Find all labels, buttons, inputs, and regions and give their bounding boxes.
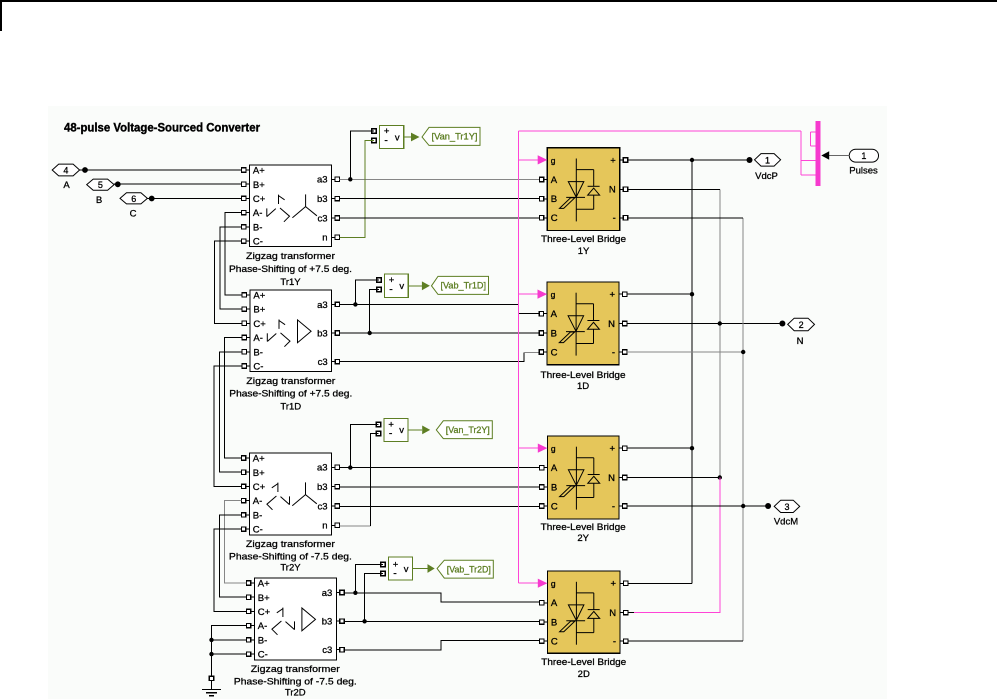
Tr2D port A- [247, 625, 255, 627]
svg-text:C: C [551, 347, 558, 358]
svg-text:B+: B+ [253, 180, 265, 191]
zigzag transformer Tr2D block [254, 578, 336, 660]
svg-text:-: - [389, 428, 393, 440]
svg-text:[Vab_Tr1D]: [Vab_Tr1D] [441, 281, 487, 291]
voltage measurement M2 [385, 274, 409, 298]
M3 output arrowhead [422, 426, 430, 435]
junction dot C [149, 196, 155, 202]
tap dot Vab_Tr1D - [368, 331, 372, 335]
tap dot Van_Tr2Y + [348, 465, 352, 469]
wire Tr2D A- to ground [212, 626, 247, 677]
Tr2Y wye secondary icon [305, 482, 307, 494]
svg-text:g: g [551, 444, 556, 454]
svg-text:A-: A- [258, 621, 268, 632]
Tr1Y port A+ [242, 169, 250, 171]
Tr2D port C+ [247, 610, 255, 612]
wire Tr1D B- to Tr2Y B+ [219, 352, 242, 472]
M2 output arrowhead [422, 281, 430, 290]
zigzag transformer Tr1Y block [249, 165, 331, 246]
svg-text:a3: a3 [317, 463, 328, 474]
svg-text:VdcM: VdcM [774, 517, 798, 528]
svg-text:g: g [551, 290, 556, 300]
svg-text:+: + [609, 444, 615, 455]
svg-text:A: A [551, 309, 558, 320]
Tr1D delta secondary icon [298, 320, 312, 343]
svg-text:3: 3 [784, 502, 789, 512]
Tr1D port c3 [332, 361, 340, 363]
svg-text:B+: B+ [253, 468, 265, 479]
M1 input ports [372, 129, 377, 134]
svg-text:B-: B- [253, 347, 263, 358]
wire B to Tr1Y B+ [114, 183, 243, 185]
wire C to Tr1Y C+ [147, 197, 243, 199]
junction dot plus 2Y [690, 446, 694, 450]
svg-text:-: - [613, 213, 616, 224]
wire Tr1Y b3 to bridge 1Y B [339, 198, 539, 200]
svg-text:A: A [551, 598, 558, 609]
wire bridge 2Y N to N bus [627, 477, 720, 479]
Tr2Y port n [332, 524, 340, 526]
svg-text:Three-Level Bridge: Three-Level Bridge [541, 522, 626, 533]
arrowhead into demux [821, 151, 829, 159]
M4 input ports [381, 562, 386, 567]
outport 2 N [779, 321, 785, 327]
svg-text:48-pulse Voltage-Sourced Conve: 48-pulse Voltage-Sourced Converter [64, 121, 260, 135]
svg-text:g: g [551, 579, 556, 589]
svg-text:b3: b3 [317, 328, 328, 339]
wire Tr2Y b3 to bridge 2Y B [339, 486, 539, 488]
svg-text:A+: A+ [258, 579, 270, 590]
voltage measurement M3 [384, 419, 408, 442]
Tr1Y port A- [242, 212, 250, 214]
Tr2D port B+ [247, 596, 255, 598]
wire bridge 1Y - to minus bus [628, 217, 744, 219]
wire Tr1D b3 to bridge 1D B [340, 332, 540, 334]
model canvas background [48, 106, 887, 699]
wire Tr1Y a3 to bridge 1Y A [339, 178, 539, 180]
Tr1Y port c3 [332, 217, 340, 219]
Tr1D zigzag winding icon [278, 320, 280, 329]
Tr1D port A+ [242, 294, 250, 296]
Tr2D port b3 [336, 620, 344, 622]
svg-text:C-: C- [253, 362, 263, 373]
inport 5 (phase B) [87, 179, 114, 190]
svg-text:C: C [551, 637, 558, 648]
svg-text:B-: B- [258, 636, 268, 647]
svg-text:A+: A+ [253, 454, 265, 465]
Tr2Y port C- [242, 528, 250, 530]
tap dot Vab_Tr2D + [353, 591, 357, 595]
junction dot N bus 1D [718, 321, 722, 325]
Tr1D port a3 [332, 303, 340, 305]
Tr1D port B- [242, 351, 250, 353]
inport 6 (phase C) [120, 193, 147, 204]
svg-text:B-: B- [253, 223, 263, 234]
svg-text:n: n [322, 521, 327, 532]
svg-text:Phase-Shifting of +7.5 deg.: Phase-Shifting of +7.5 deg. [229, 264, 352, 275]
demux output wires [800, 131, 802, 175]
gate bus top horizontal [519, 130, 801, 132]
wire Tr2D C- to ground node [212, 653, 247, 655]
wire tap a3 to M3 + [350, 424, 378, 467]
svg-text:[Van_Tr2Y]: [Van_Tr2Y] [446, 425, 490, 435]
Tr1Y port B+ [242, 183, 250, 185]
wire tap a3 to M2 + [355, 280, 379, 305]
gate wire to bridge 1D g [519, 293, 538, 295]
junction dot A [82, 167, 88, 173]
svg-text:v: v [404, 564, 409, 575]
wire Tr2D a3 to bridge 2D A [344, 593, 539, 602]
svg-text:A: A [551, 175, 558, 186]
Tr1D port b3 [332, 332, 340, 334]
three-level bridge 1Y block [547, 148, 620, 231]
svg-text:N: N [608, 473, 615, 484]
svg-text:c3: c3 [318, 501, 328, 512]
svg-text:1: 1 [765, 155, 770, 165]
wire Tr1D a3 to bridge 1D A [340, 304, 540, 313]
svg-text:A: A [63, 180, 70, 191]
svg-text:-: - [389, 284, 393, 296]
svg-text:N: N [797, 336, 804, 347]
svg-text:Tr2D: Tr2D [285, 688, 306, 699]
minus bus vertical [742, 218, 744, 641]
tap dot Vab_Tr2D - [362, 619, 366, 623]
svg-text:B: B [551, 618, 557, 629]
svg-text:A-: A- [253, 208, 263, 219]
svg-text:-: - [612, 347, 615, 358]
svg-text:5: 5 [98, 180, 103, 190]
tap dot Vab_Tr1D + [353, 302, 357, 306]
wire bridge 2Y - to VdcM [627, 505, 768, 507]
svg-text:A+: A+ [253, 166, 265, 177]
svg-text:C+: C+ [253, 319, 266, 330]
Tr2Y port B+ [242, 471, 250, 473]
goto tag [Van_Tr1Y] [422, 127, 480, 145]
Tr2Y port C+ [242, 485, 250, 487]
wire Tr1Y C- to Tr1D C+ [215, 241, 243, 323]
Tr2Y port A- [242, 500, 250, 502]
svg-text:C-: C- [253, 525, 263, 536]
wire bridge 1Y N to N bus [628, 188, 720, 190]
svg-text:Tr2Y: Tr2Y [280, 563, 301, 574]
ground [209, 676, 213, 680]
wire Tr1Y A- to Tr1D A+ [225, 213, 242, 295]
demux bar [816, 121, 821, 186]
wire tap b3 to M4 - [365, 574, 383, 622]
svg-text:Pulses: Pulses [849, 166, 878, 177]
Tr1Y port b3 [332, 198, 340, 200]
wire Tr2Y C- to Tr2D C+ [214, 529, 246, 611]
junction dot B [115, 181, 121, 187]
window frame corner [0, 0, 997, 2]
svg-text:Three-Level Bridge: Three-Level Bridge [541, 370, 626, 381]
svg-text:v: v [399, 425, 404, 436]
outport 3 VdcM [765, 503, 771, 509]
wire Tr2D b3 to bridge 2D B [344, 620, 539, 622]
svg-text:A-: A- [253, 333, 263, 344]
svg-text:-: - [393, 568, 397, 580]
svg-text:B: B [96, 195, 102, 206]
wire Tr2D c3 to bridge 2D C [344, 640, 539, 650]
wire bridge 2D + to plus bus [628, 582, 692, 584]
svg-text:1D: 1D [577, 381, 589, 392]
svg-text:Tr1D: Tr1D [280, 401, 301, 412]
svg-text:Zigzag transformer: Zigzag transformer [246, 251, 335, 262]
svg-text:+: + [610, 155, 616, 166]
svg-text:A+: A+ [253, 291, 265, 302]
Tr2D port a3 [336, 592, 344, 594]
wire Tr1Y n to M1 - (green) [339, 141, 374, 238]
svg-text:C-: C- [258, 650, 268, 661]
Tr2Y port c3 [332, 505, 340, 507]
2D icon [575, 582, 577, 645]
wire tap b3 to M2 - [370, 290, 379, 334]
wire bridge 2Y + to plus bus [627, 447, 692, 449]
Tr2D port C- [247, 653, 255, 655]
svg-text:2Y: 2Y [577, 533, 589, 544]
wire Tr1Y c3 to bridge 1Y C [339, 217, 539, 219]
svg-text:Zigzag transformer: Zigzag transformer [246, 376, 335, 387]
N bus vertical [719, 189, 721, 477]
Tr2D delta secondary icon [302, 608, 316, 631]
svg-text:b3: b3 [317, 482, 328, 493]
M3 output wire [408, 429, 422, 431]
Tr2D port c3 [336, 649, 344, 651]
svg-text:C: C [551, 501, 558, 512]
Tr1Y zigzag winding icon [278, 195, 280, 204]
junction dot plus 1Y [690, 158, 694, 162]
M1 output arrowhead [411, 133, 420, 142]
Tr1Y port a3 [332, 178, 340, 180]
junction dot minus 2Y [741, 504, 745, 508]
Tr1Y port n [332, 236, 340, 238]
M1 output wire [404, 136, 411, 138]
wire Tr2Y c3 to bridge 2Y C [339, 505, 539, 507]
Tr2D zigzag winding icon [282, 608, 284, 617]
svg-text:B+: B+ [253, 305, 265, 316]
three-level bridge 2Y block [547, 436, 619, 519]
Tr1Y port C- [242, 240, 250, 242]
svg-text:N: N [609, 185, 616, 196]
svg-text:N: N [609, 608, 616, 619]
svg-text:C: C [130, 209, 137, 220]
svg-text:6: 6 [131, 194, 136, 204]
Tr2Y port A+ [242, 457, 250, 459]
wire bridge 1D N to outport 2 [627, 323, 783, 325]
svg-text:2D: 2D [578, 669, 590, 680]
inport 1 Pulses [849, 149, 878, 162]
svg-text:N: N [608, 319, 615, 330]
wire Tr1Y B- to Tr1D B+ [220, 227, 242, 309]
svg-text:v: v [395, 132, 400, 143]
junction dot plus 1D [690, 292, 694, 296]
wire tap a3 to M1 + [350, 131, 374, 179]
svg-text:2: 2 [799, 320, 804, 330]
wire Tr2Y a3 to bridge 2Y A [339, 467, 539, 469]
Tr1D port A- [242, 337, 250, 339]
2Y icon [575, 447, 577, 510]
svg-text:A: A [551, 463, 558, 474]
Tr1Y port C+ [242, 197, 250, 199]
svg-text:C+: C+ [253, 482, 266, 493]
svg-text:B: B [551, 482, 557, 493]
svg-text:B+: B+ [258, 593, 270, 604]
svg-text:Zigzag transformer: Zigzag transformer [251, 664, 340, 675]
wire Tr1D c3 to bridge 1D C [340, 352, 524, 361]
Tr1Y wye secondary icon [305, 194, 307, 206]
svg-text:-: - [613, 637, 616, 648]
svg-text:[Van_Tr1Y]: [Van_Tr1Y] [432, 132, 478, 142]
junction dot minus 1D [741, 350, 745, 354]
wire bridge 1Y + to VdcP [628, 159, 750, 161]
wire Tr2D B- to ground node [212, 639, 247, 641]
svg-text:Tr1Y: Tr1Y [280, 277, 301, 288]
svg-text:a3: a3 [317, 300, 328, 311]
voltage measurement M1 [380, 125, 404, 148]
junction dot B- ground [209, 638, 213, 642]
Tr2Y port a3 [332, 466, 340, 468]
goto tag [Vab_Tr1D] [432, 276, 489, 294]
wire Tr1D C- to Tr2Y C+ [214, 366, 242, 486]
svg-text:-: - [612, 501, 615, 512]
svg-text:a3: a3 [317, 175, 328, 186]
svg-text:Three-Level Bridge: Three-Level Bridge [541, 234, 626, 245]
wire bridge 1D - to minus bus [627, 351, 743, 353]
gate wire to bridge 1Y g [519, 159, 539, 161]
svg-text:[Vab_Tr2D]: [Vab_Tr2D] [447, 564, 491, 574]
svg-text:v: v [399, 281, 404, 292]
zigzag transformer Tr1D block [250, 290, 332, 371]
svg-text:+: + [609, 290, 615, 301]
svg-text:b3: b3 [322, 617, 333, 628]
Tr2Y port B- [242, 514, 250, 516]
svg-text:B-: B- [253, 511, 262, 522]
svg-text:b3: b3 [317, 194, 328, 205]
svg-text:A-: A- [253, 496, 262, 507]
junction dot C- ground [209, 652, 213, 656]
wire tap a3 to M4 + [355, 564, 383, 593]
wire Tr2Y n to M3 - (grey then up) [339, 525, 370, 527]
svg-text:Phase-Shifting of -7.5 deg.: Phase-Shifting of -7.5 deg. [234, 677, 357, 688]
Tr2Y port b3 [332, 486, 340, 488]
zigzag transformer Tr2Y block [249, 453, 331, 535]
wire Tr2Y A- to Tr2D A+ [225, 501, 247, 583]
M2 output wire [408, 285, 422, 287]
svg-text:VdcP: VdcP [755, 171, 778, 182]
wire bridge 2D N to N bus (magenta) [628, 612, 634, 614]
svg-text:c3: c3 [322, 645, 332, 656]
svg-text:c3: c3 [318, 357, 328, 368]
svg-text:1: 1 [861, 151, 866, 161]
inport 4 (phase A) [52, 164, 79, 176]
goto tag [Vab_Tr2D] [437, 560, 493, 578]
wire Pulses to demux [829, 155, 849, 157]
svg-text:C+: C+ [258, 607, 271, 618]
wire bridge 2D - to minus bus [628, 640, 743, 642]
svg-text:Three-Level Bridge: Three-Level Bridge [541, 657, 626, 668]
svg-text:C-: C- [253, 237, 263, 248]
svg-text:Phase-Shifting of -7.5 deg.: Phase-Shifting of -7.5 deg. [229, 552, 352, 563]
wire Tr2Y B- to Tr2D B+ [219, 515, 246, 597]
svg-text:B: B [551, 194, 557, 205]
plus bus vertical [691, 160, 693, 583]
Tr2D port B- [247, 639, 255, 641]
M4 output arrowhead [428, 564, 435, 573]
svg-text:-: - [384, 135, 388, 147]
Tr1D port C- [242, 365, 250, 367]
M3 input ports [376, 422, 381, 427]
wire A to Tr1Y A+ [80, 169, 243, 171]
voltage measurement M4 [389, 557, 413, 580]
outport 1 VdcP [747, 157, 753, 163]
Tr2Y zigzag winding icon [277, 483, 279, 492]
svg-text:g: g [551, 155, 556, 165]
gate bus vertical (magenta) [518, 131, 520, 583]
gate wire to bridge 2Y g [519, 447, 539, 449]
svg-text:n: n [322, 233, 327, 244]
svg-text:Phase-Shifting of +7.5 deg.: Phase-Shifting of +7.5 deg. [229, 388, 352, 399]
1D icon [575, 293, 577, 356]
M4 output wire [413, 568, 428, 570]
Tr1D port B+ [242, 308, 250, 310]
1Y icon [575, 159, 577, 222]
svg-text:4: 4 [63, 165, 68, 175]
three-level bridge 2D block [547, 571, 620, 653]
Tr1Y port B- [242, 226, 250, 228]
svg-text:C+: C+ [253, 194, 266, 205]
wire Tr1D A- to Tr2Y A+ [225, 338, 243, 459]
three-level bridge 1D block [547, 282, 619, 365]
svg-text:+: + [611, 579, 617, 590]
M2 input ports [377, 278, 382, 283]
svg-text:1Y: 1Y [578, 246, 590, 257]
svg-text:a3: a3 [322, 588, 333, 599]
wire bridge 1D + to plus bus [627, 293, 692, 295]
svg-text:C: C [551, 213, 558, 224]
tap dot Van_Tr1Y + [348, 177, 352, 181]
Tr2D port A+ [247, 582, 255, 584]
Tr1D port C+ [242, 322, 250, 324]
gate wire to bridge 2D g [519, 582, 539, 584]
junction dot N bus 2Y [718, 475, 722, 479]
svg-text:Zigzag transformer: Zigzag transformer [246, 539, 335, 550]
svg-text:c3: c3 [318, 213, 328, 224]
svg-text:B: B [551, 328, 557, 339]
goto tag [Van_Tr2Y] [436, 421, 492, 439]
